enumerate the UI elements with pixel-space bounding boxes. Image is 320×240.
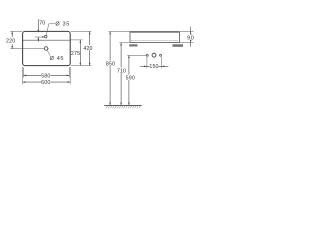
svg-text:Ø 45: Ø 45 xyxy=(50,56,65,62)
svg-text:275: 275 xyxy=(71,51,80,57)
svg-text:420: 420 xyxy=(83,46,92,52)
svg-text:580: 580 xyxy=(41,73,50,79)
svg-text:90: 90 xyxy=(187,35,194,41)
svg-text:Ø 35: Ø 35 xyxy=(55,22,70,28)
svg-text:590: 590 xyxy=(126,76,135,82)
svg-text:710: 710 xyxy=(117,69,126,75)
svg-text:70: 70 xyxy=(39,21,45,27)
svg-text:220: 220 xyxy=(6,39,15,45)
svg-text:150: 150 xyxy=(149,64,158,70)
svg-text:850: 850 xyxy=(106,62,115,68)
svg-text:600: 600 xyxy=(41,80,50,86)
